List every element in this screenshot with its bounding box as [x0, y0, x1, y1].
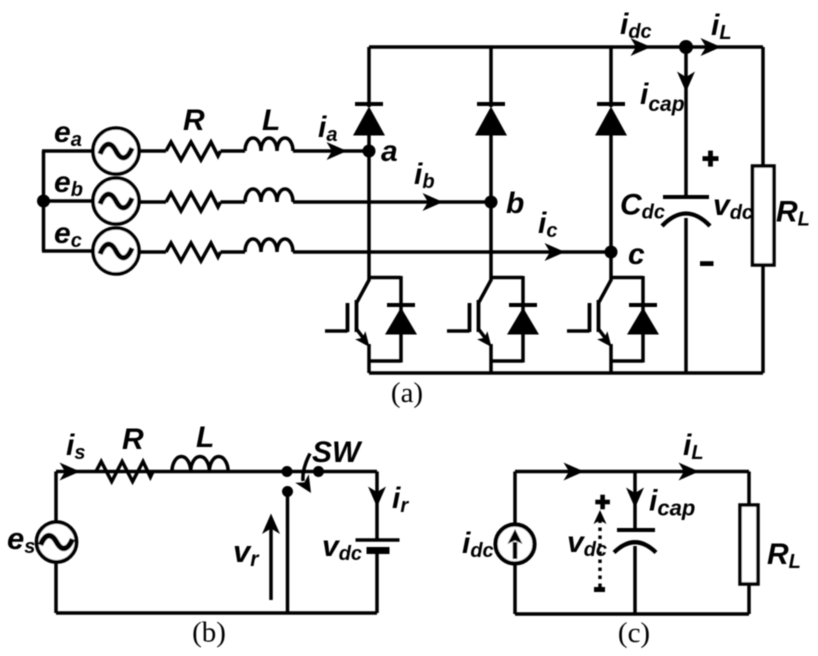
- svg-text:R: R: [122, 423, 144, 456]
- svg-text:L: L: [196, 421, 214, 454]
- svg-text:(b): (b): [192, 617, 226, 649]
- svg-text:(c): (c): [618, 617, 650, 649]
- svg-text:c: c: [628, 238, 645, 271]
- svg-text:a: a: [381, 135, 398, 168]
- svg-text:b: b: [506, 187, 524, 220]
- svg-text:(a): (a): [391, 377, 423, 409]
- svg-text:SW: SW: [312, 436, 363, 469]
- svg-text:L: L: [262, 104, 280, 137]
- svg-text:R: R: [183, 104, 205, 137]
